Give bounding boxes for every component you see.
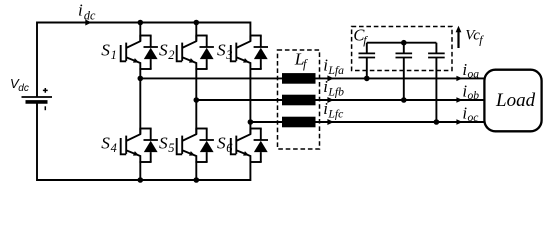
current arrow i_ob (456, 97, 462, 102)
filter box L_f (dashed) (278, 50, 320, 149)
current arrow i_dc (85, 20, 91, 26)
capacitor box C_f (dashed) (352, 27, 452, 71)
svg-text:S: S (159, 41, 168, 60)
node phase a tap (138, 76, 144, 82)
node phase b tap (194, 97, 200, 103)
inductor L_fc (282, 117, 316, 128)
diode D6 antiparallel with S6 (260, 129, 262, 141)
load box (484, 70, 541, 132)
node top rail leg 1 (138, 20, 144, 26)
node phase c tap (248, 119, 254, 125)
wire leg 1 midpoint (139, 69, 141, 134)
svg-text:S: S (101, 134, 110, 153)
svg-text:Load: Load (495, 90, 536, 111)
current arrow i_oc (456, 119, 462, 124)
svg-text:5: 5 (168, 141, 174, 155)
wire phase c line (250, 121, 484, 123)
wire leg 1 bottom stub (139, 162, 141, 180)
svg-text:f: f (479, 33, 484, 47)
inductor L_fb (282, 95, 316, 106)
wire leg 2 bottom stub (195, 162, 197, 180)
svg-text:3: 3 (225, 48, 232, 62)
capacitor C_fb (403, 43, 405, 53)
capacitor C_fc (435, 43, 437, 53)
svg-text:2: 2 (168, 48, 174, 62)
node capacitor bus middle (401, 40, 407, 46)
svg-text:1: 1 (111, 48, 117, 62)
svg-text:oa: oa (468, 67, 480, 80)
node bottom rail leg 2 (194, 177, 200, 183)
svg-text:S: S (217, 41, 226, 60)
svg-text:dc: dc (18, 83, 29, 94)
diode D2 antiparallel with S2 (206, 36, 208, 48)
svg-text:6: 6 (226, 141, 233, 155)
wire phase b line (196, 99, 484, 101)
current arrow i_Lfb (327, 97, 333, 103)
svg-text:oc: oc (468, 111, 480, 124)
wire leg 3 midpoint (249, 69, 251, 134)
wire leg 1 top stub (139, 23, 141, 41)
svg-text:4: 4 (111, 141, 117, 155)
svg-text:dc: dc (84, 8, 96, 22)
inductor L_fa (282, 73, 316, 84)
svg-text:S: S (101, 41, 110, 60)
node C_fa to phase a (364, 76, 370, 82)
svg-text:Lfb: Lfb (327, 85, 344, 98)
wire cell connectors leg 2 top row (195, 35, 207, 37)
diode D4 antiparallel with S4 (150, 129, 152, 141)
svg-text:ob: ob (468, 89, 480, 102)
node top rail leg 2 (194, 20, 200, 26)
battery plus sign (43, 88, 48, 93)
svg-text:S: S (217, 134, 226, 153)
battery V_dc negative plate (26, 100, 48, 104)
node C_fc to phase c (434, 119, 440, 125)
transistor S6 (IGBT) (231, 138, 237, 154)
wire top rail with left DC bus (37, 23, 250, 98)
wire cell connectors leg 1 top row (139, 35, 151, 37)
diode D1 antiparallel with S1 (150, 36, 152, 48)
capacitor C_fa (366, 43, 368, 53)
wire capacitor top bus (367, 42, 437, 44)
wire leg 2 midpoint (195, 69, 197, 134)
transistor S1 (IGBT) (121, 45, 127, 61)
battery minus tick (44, 106, 46, 110)
transistor S5 (IGBT) (177, 138, 183, 154)
transistor S2 (IGBT) (177, 45, 183, 61)
transistor S4 (IGBT) (121, 138, 127, 154)
wire cell connectors leg 3 top row (250, 35, 262, 37)
wire phase a line (140, 77, 484, 79)
svg-text:Lfa: Lfa (327, 64, 344, 77)
current arrow i_oa (456, 76, 462, 81)
wire cell connectors leg 1 bottom row (139, 128, 151, 130)
diode D5 antiparallel with S5 (206, 129, 208, 141)
battery V_dc positive plate (22, 96, 53, 98)
wire cell connectors leg 2 bottom row (195, 128, 207, 130)
wire bottom rail with left DC bus (37, 101, 250, 180)
svg-text:S: S (159, 134, 168, 153)
svg-text:f: f (303, 57, 308, 71)
wire cell connectors leg 3 bottom row (250, 128, 262, 130)
wire leg 2 top stub (195, 23, 197, 41)
node C_fb to phase b (401, 97, 407, 103)
svg-text:i: i (78, 1, 83, 20)
node bottom rail leg 1 (138, 177, 144, 183)
svg-text:Lfc: Lfc (327, 107, 344, 120)
diode D3 antiparallel with S3 (260, 36, 262, 48)
voltage arrow V_cf (457, 30, 459, 48)
current arrow i_Lfc (327, 119, 333, 125)
current arrow i_Lfa (327, 75, 333, 81)
transistor S3 (IGBT) (231, 45, 237, 61)
